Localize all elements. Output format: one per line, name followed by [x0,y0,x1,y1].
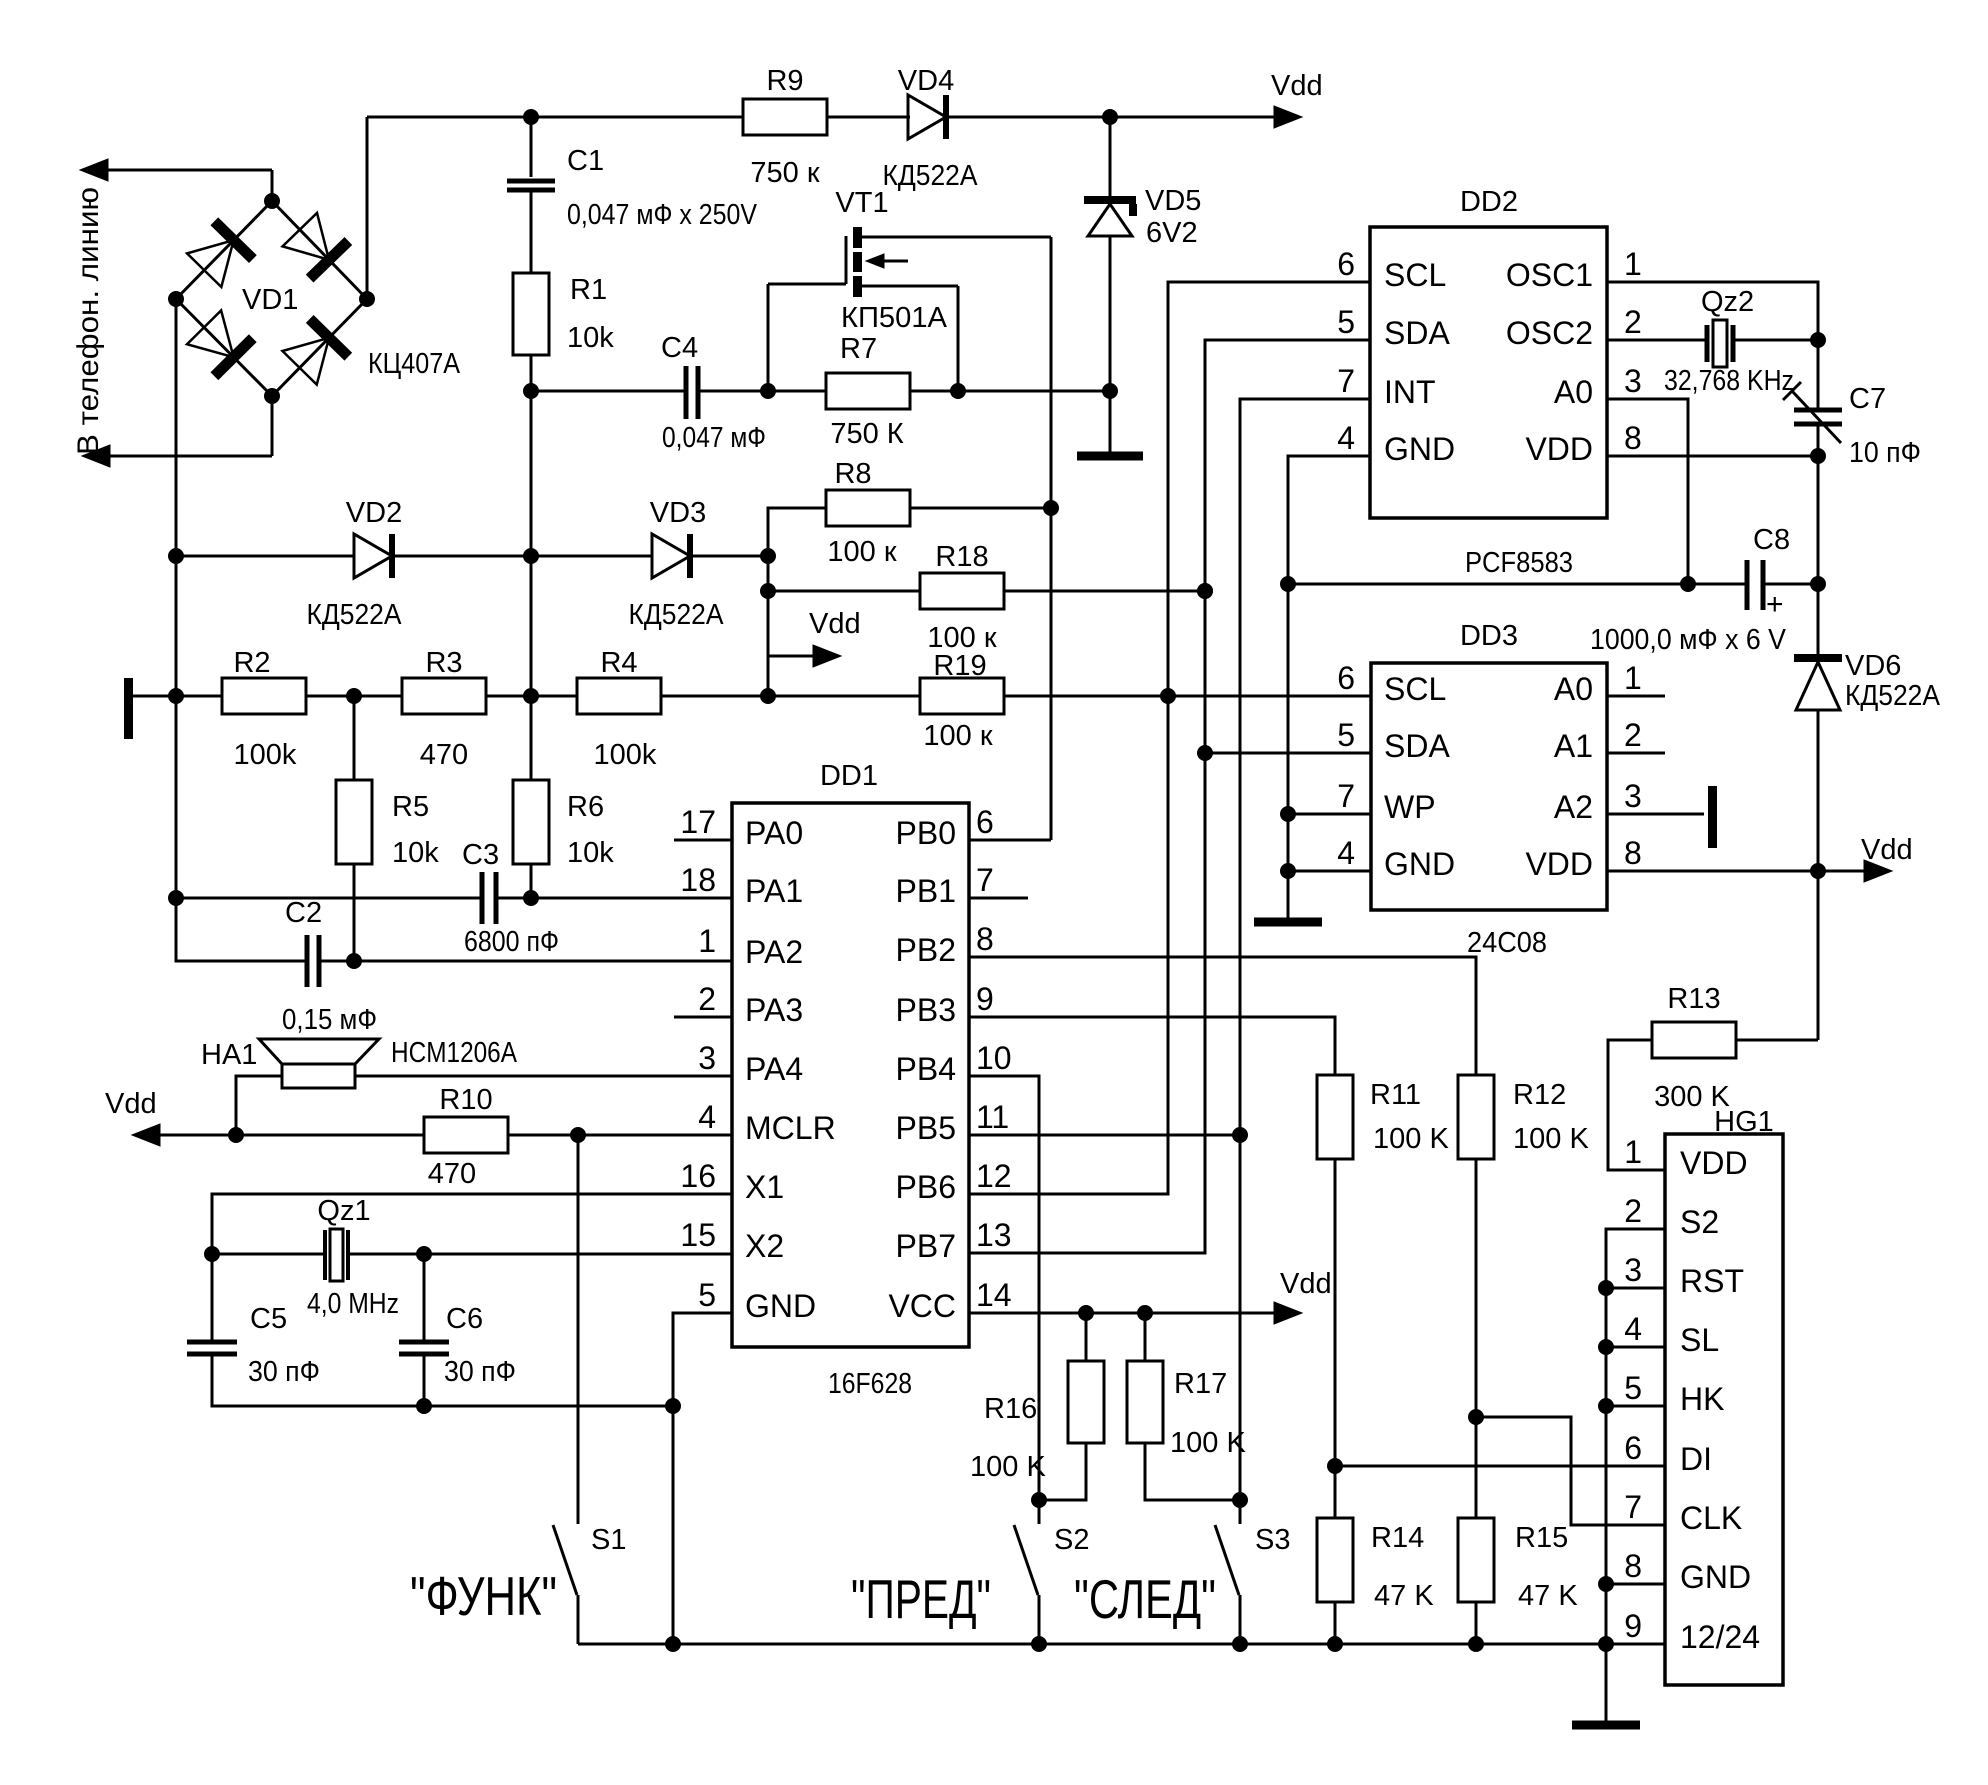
svg-text:6: 6 [1337,660,1355,696]
svg-text:PB1: PB1 [896,873,956,909]
wire PB4 down to S2 [969,1076,1039,1524]
stub DD3 A1 [1607,752,1665,755]
svg-text:18: 18 [680,862,716,898]
resistor R8 100к [826,490,910,526]
wire DD2 GND down to ground [1288,456,1370,918]
wire [1475,1602,1478,1644]
svg-text:SDA: SDA [1384,315,1450,351]
wire [1005,590,1205,593]
wire [160,1134,424,1137]
resistor R15 47 K [1458,1518,1494,1602]
svg-text:C5: C5 [250,1303,287,1335]
svg-text:7: 7 [1337,363,1355,399]
wire [133,695,222,698]
svg-text:R10: R10 [439,1084,492,1116]
wire gate down to R7 left node [767,284,770,391]
svg-text:DD2: DD2 [1460,186,1518,218]
wire [530,355,533,391]
svg-text:1: 1 [1624,1134,1642,1170]
diode bridge VD1 КЦ407А [168,193,375,404]
svg-text:30 пФ: 30 пФ [248,1356,320,1388]
svg-text:100 K: 100 K [970,1451,1046,1483]
svg-text:6: 6 [976,804,994,840]
svg-text:750 К: 750 К [830,418,903,450]
capacitor C6 30пФ [423,1254,426,1342]
svg-text:11: 11 [976,1099,1009,1135]
terminal arrow to phone line (bottom) [82,445,110,467]
Vdd arrow (left, MCLR pull-up) [132,1124,160,1146]
svg-text:HCM1206A: HCM1206A [391,1037,518,1069]
svg-text:47 K: 47 K [1518,1580,1578,1612]
svg-text:4: 4 [1337,835,1355,871]
wire DD1 GND down [673,1313,732,1644]
svg-text:2: 2 [1624,304,1642,340]
capacitor C8 1000,0мФ x 6V (polarized) [1745,560,1750,610]
svg-text:КД522А: КД522А [307,599,403,631]
svg-text:PB2: PB2 [896,932,956,968]
svg-text:R5: R5 [392,791,429,823]
svg-text:8: 8 [1624,1548,1642,1584]
svg-text:GND: GND [1680,1559,1751,1595]
wire [910,390,1110,393]
svg-text:VCC: VCC [888,1288,956,1324]
crystal Qz2 32,768 KHz [1713,320,1727,367]
svg-text:PA4: PA4 [745,1051,803,1087]
svg-text:100 K: 100 K [1373,1123,1449,1155]
wire [827,116,910,119]
wire [698,390,827,393]
svg-text:R16: R16 [984,1393,1037,1425]
svg-text:3: 3 [698,1040,716,1076]
capacitor C4 0,047мФ [684,366,689,419]
svg-text:C3: C3 [462,839,499,871]
resistor R9 750k [743,99,827,135]
wire DD3 WP from ground column [1288,813,1371,816]
resistor R13 300 K [1652,1022,1736,1058]
wire speaker left down [236,1076,282,1135]
svg-text:RST: RST [1680,1263,1744,1299]
resistor R12 100 K [1458,1075,1494,1159]
svg-text:VDD: VDD [1525,846,1593,882]
svg-text:PB4: PB4 [896,1051,956,1087]
svg-text:КП501А: КП501А [841,302,948,334]
resistor R6 10k [530,738,533,780]
svg-text:PB3: PB3 [896,992,956,1028]
svg-text:MCLR: MCLR [745,1110,836,1146]
svg-text:VD6: VD6 [1845,650,1901,682]
wire PB2 to R12 column [969,957,1476,1075]
wire R8 right to drain column [910,507,1051,510]
svg-text:8: 8 [1624,835,1642,871]
svg-text:Vdd: Vdd [105,1088,157,1120]
svg-text:PA2: PA2 [745,934,803,970]
svg-text:WP: WP [1384,789,1436,825]
diode VD6 КД522А [1817,584,1820,656]
svg-text:VD4: VD4 [898,65,954,97]
svg-text:R1: R1 [570,274,607,306]
svg-text:10k: 10k [567,322,614,354]
svg-text:3: 3 [1624,778,1642,814]
wire Vdd column down [1817,456,1820,584]
svg-text:X2: X2 [745,1228,784,1264]
svg-text:470: 470 [428,1158,476,1190]
svg-text:A2: A2 [1554,789,1593,825]
svg-text:DD3: DD3 [1460,620,1518,652]
resistor R2 100k [222,678,306,714]
wire [176,897,482,900]
diode VD4 КД522А [908,95,946,139]
svg-text:7: 7 [1624,1489,1642,1525]
svg-text:0,15 мФ: 0,15 мФ [282,1004,377,1036]
svg-text:17: 17 [680,804,716,840]
svg-text:R12: R12 [1513,1079,1566,1111]
svg-text:R18: R18 [935,541,988,573]
svg-text:13: 13 [976,1217,1012,1253]
capacitor C2 0,15мФ [305,935,310,987]
wire source down to R7 right node [957,286,960,391]
svg-text:R2: R2 [233,647,270,679]
wire HG1 stub [1606,1405,1665,1408]
IC DD1 16F628 [732,803,969,1347]
wire HG1 S2 chain down [1606,1229,1665,1721]
svg-text:100 к: 100 к [827,536,896,568]
svg-text:+: + [1766,588,1784,621]
svg-text:GND: GND [745,1288,816,1324]
net wire PCF8583 row [1288,583,1747,586]
svg-text:VD1: VD1 [242,284,298,316]
svg-text:VDD: VDD [1525,431,1593,467]
svg-text:"СЛЕД": "СЛЕД" [1074,1568,1216,1630]
svg-text:HG1: HG1 [1714,1106,1774,1138]
svg-text:0,047 мФ: 0,047 мФ [662,422,766,454]
svg-text:R14: R14 [1371,1522,1424,1554]
svg-text:C6: C6 [446,1303,483,1335]
IC DD3 24C08 [1371,663,1607,910]
svg-text:S2: S2 [1680,1204,1719,1240]
svg-text:5: 5 [698,1277,716,1313]
svg-text:10k: 10k [392,837,439,869]
svg-text:PA3: PA3 [745,992,803,1028]
wire PB0 up to drain column [969,839,1051,842]
resistor R1 10k [513,273,549,355]
trimmer capacitor C7 10пФ [1817,340,1820,408]
svg-text:6: 6 [1624,1430,1642,1466]
svg-text:VT1: VT1 [835,187,888,219]
svg-text:16: 16 [680,1158,716,1194]
svg-text:PB6: PB6 [896,1169,956,1205]
wire C5/C6 ground row [212,1354,673,1406]
svg-text:Vdd: Vdd [809,608,861,640]
IC DD2 PCF8583 [1370,227,1607,518]
svg-text:R9: R9 [766,65,803,97]
svg-text:100 K: 100 K [1170,1427,1246,1459]
wire Vdd junction down to VD5 [1109,117,1112,196]
svg-text:R6: R6 [567,791,604,823]
capacitor C5 30пФ [187,1340,237,1345]
terminal bar (A2) [1708,786,1717,848]
wire [690,555,768,558]
svg-text:24C08: 24C08 [1467,927,1547,959]
net wire DI to HG1 [1335,1465,1665,1468]
svg-text:10k: 10k [567,837,614,869]
svg-text:12/24: 12/24 [1680,1619,1760,1655]
resistor R17 100 K [1144,1313,1147,1360]
wire [661,695,920,698]
svg-text:PA0: PA0 [745,815,803,851]
svg-text:SCL: SCL [1384,257,1446,293]
svg-text:10: 10 [976,1040,1012,1076]
svg-text:Vdd: Vdd [1280,1268,1332,1300]
svg-text:10 пФ: 10 пФ [1849,437,1921,469]
svg-text:8: 8 [1624,420,1642,456]
resistor R3 470 [402,678,486,714]
resistor R10 470 [424,1117,508,1153]
wire VCC row with Vdd arrow [969,1312,1277,1315]
svg-text:КЦ407А: КЦ407А [368,348,461,380]
svg-text:R13: R13 [1667,983,1720,1015]
wire DD3 VDD to Vdd arrow [1607,870,1818,873]
svg-text:КД522А: КД522А [1845,680,1941,712]
svg-text:4,0 MHz: 4,0 MHz [307,1288,399,1320]
svg-text:GND: GND [1384,846,1455,882]
svg-text:14: 14 [976,1277,1012,1313]
svg-text:R8: R8 [834,458,871,490]
capacitor C1 0,047мФ x 250V [530,117,533,177]
svg-text:6800 пФ: 6800 пФ [464,926,559,958]
Vdd arrow (right) [1818,870,1867,873]
wire bridge left vertex down [175,299,178,898]
svg-text:OSC2: OSC2 [1506,315,1593,351]
wire [306,695,402,698]
svg-text:A0: A0 [1554,374,1593,410]
svg-text:100k: 100k [234,739,297,771]
svg-text:Vdd: Vdd [1861,834,1913,866]
svg-text:100 к: 100 к [923,720,992,752]
Vdd arrow (R8/R18 node) [768,655,816,658]
svg-text:DI: DI [1680,1441,1712,1477]
svg-text:HA1: HA1 [201,1039,257,1071]
wire HG1 stub [1606,1287,1665,1290]
wire R8 left leg [768,508,827,696]
svg-text:PCF8583: PCF8583 [1465,547,1573,579]
svg-text:7: 7 [976,862,994,898]
svg-text:INT: INT [1384,374,1436,410]
svg-text:PA1: PA1 [745,873,803,909]
ground (below VD5) [1077,452,1143,461]
svg-text:8: 8 [976,921,994,957]
svg-text:R17: R17 [1174,1368,1227,1400]
svg-text:R4: R4 [600,647,637,679]
wire DD2 INT down to PB5/S3 [1240,399,1370,1524]
svg-text:6: 6 [1337,246,1355,282]
wire [531,390,686,393]
wire speaker to PA4 [355,1075,732,1078]
svg-text:Vdd: Vdd [1271,70,1323,102]
wire OSC2 to crystal Qz2 [1607,339,1707,342]
svg-text:R11: R11 [1370,1079,1421,1111]
wire HG1 stub [1606,1583,1665,1586]
svg-text:C2: C2 [285,897,322,929]
svg-text:6V2: 6V2 [1146,217,1198,249]
ground (bottom right) [1605,1644,1608,1721]
wire PB7 up to SDA bus [969,340,1370,1253]
svg-text:R3: R3 [425,647,462,679]
svg-text:1000,0 мФ x 6 V: 1000,0 мФ x 6 V [1590,624,1787,656]
svg-text:DD1: DD1 [820,760,878,792]
svg-text:PB5: PB5 [896,1110,956,1146]
svg-text:470: 470 [420,739,468,771]
svg-text:1: 1 [1624,246,1642,282]
svg-text:4: 4 [1337,420,1355,456]
svg-text:30 пФ: 30 пФ [444,1356,516,1388]
svg-text:1: 1 [1624,660,1642,696]
svg-text:X1: X1 [745,1169,784,1205]
wire bridge right to top rail [366,117,369,299]
svg-text:C8: C8 [1753,524,1790,556]
wire [1334,1602,1337,1644]
wire R11 down to DI node [1334,1158,1337,1519]
wire DD2 A0 down to PCF net [1607,399,1688,584]
wire DD2 VDD to Vdd column [1607,455,1818,458]
Vdd arrow (top rail) [1274,106,1302,128]
zener diode VD5 6V2 [1084,196,1136,204]
svg-text:16F628: 16F628 [828,1368,912,1400]
wire to DD1 PA2 [319,960,732,963]
wire [392,555,652,558]
diode VD3 КД522А [652,534,690,578]
wire to DD1 MCLR [508,1134,732,1137]
wire [176,898,307,961]
wire C1/R1 column down through rows [530,391,533,738]
switch S2 ПРЕД [1014,1525,1038,1595]
wire [768,590,920,593]
svg-text:5: 5 [1337,717,1355,753]
svg-text:9: 9 [976,981,994,1017]
svg-text:100 K: 100 K [1513,1123,1589,1155]
svg-text:5: 5 [1624,1370,1642,1406]
svg-text:4: 4 [698,1099,716,1135]
svg-text:VD5: VD5 [1145,185,1201,217]
svg-text:3: 3 [1624,1252,1642,1288]
svg-text:7: 7 [1337,778,1355,814]
resistor R4 100k [577,678,661,714]
svg-text:S1: S1 [591,1524,626,1556]
wire DD3 A2 to open terminal [1607,813,1704,816]
transistor VT1 КП501А [768,227,1051,297]
resistor R16 100 K [1085,1313,1088,1360]
svg-text:SCL: SCL [1384,671,1446,707]
switch S3 СЛЕД [1215,1525,1239,1595]
svg-text:"ПРЕД": "ПРЕД" [851,1568,991,1630]
svg-text:GND: GND [1384,431,1455,467]
svg-text:5: 5 [1337,304,1355,340]
svg-text:В телефон. линию: В телефон. линию [72,187,105,455]
resistor R18 100к [920,573,1004,609]
wire PB5 to S3 column [969,1134,1240,1137]
svg-text:PB7: PB7 [896,1228,956,1264]
wire PB6 up to DD2 SCL [969,282,1370,1194]
svg-text:CLK: CLK [1680,1500,1742,1536]
wire PB3 to R11 column [969,1017,1335,1075]
resistor R5 10k [353,696,356,780]
wire drain down [1050,237,1053,840]
svg-text:"ФУНК": "ФУНК" [410,1565,557,1627]
wire R13 right to Vdd column [1735,1039,1818,1042]
svg-text:12: 12 [976,1158,1012,1194]
wire HG1 stub [1606,1346,1665,1349]
svg-text:0,047 мФ x 250V: 0,047 мФ x 250V [567,199,758,231]
wire OSC1 to crystal column [1607,282,1818,340]
stub PA0 [674,839,732,842]
svg-text:2: 2 [1624,1193,1642,1229]
diode VD2 КД522А [354,534,392,578]
electret mic terminal [124,678,133,739]
svg-text:C4: C4 [661,332,698,364]
bottom net wire [578,1643,1665,1646]
stub PA3 [674,1016,732,1019]
svg-text:КД522А: КД522А [629,599,725,631]
terminal arrow to phone line (top) [80,159,108,181]
svg-text:9: 9 [1624,1608,1642,1644]
svg-text:15: 15 [680,1217,716,1253]
stub DD3 A0 [1607,695,1665,698]
wire DD3 SDA from bus [1205,752,1371,755]
svg-text:750 к: 750 к [750,157,819,189]
svg-text:S3: S3 [1255,1524,1290,1556]
svg-text:100k: 100k [594,739,657,771]
svg-text:R15: R15 [1515,1522,1568,1554]
switch S1 ФУНК [577,1135,580,1524]
svg-text:VD2: VD2 [346,497,402,529]
wire to Vdd [946,116,1277,119]
stub PB1 [969,897,1028,900]
IC HG1 display [1665,1134,1783,1685]
capacitor C3 6800пФ [480,872,485,924]
svg-text:47 K: 47 K [1374,1580,1434,1612]
svg-text:A1: A1 [1554,728,1593,764]
svg-text:1: 1 [698,923,716,959]
wire X1 [212,1194,732,1342]
svg-text:HK: HK [1680,1381,1724,1417]
svg-text:3: 3 [1624,363,1642,399]
svg-text:R7: R7 [840,333,877,365]
svg-text:R19: R19 [933,650,986,682]
wire [486,695,577,698]
svg-text:A0: A0 [1554,671,1593,707]
wire [271,170,274,201]
svg-text:VDD: VDD [1680,1145,1748,1181]
resistor R11 100 K [1317,1075,1353,1159]
svg-text:PB0: PB0 [896,815,956,851]
wire R12 down to CLK node [1475,1158,1478,1519]
svg-text:C7: C7 [1849,383,1886,415]
sounder HA1 HCM1206A [282,1064,355,1088]
svg-text:C1: C1 [567,145,604,177]
wire to DD3 SCL [1005,695,1371,698]
wire [271,396,274,456]
wire DD3 GND from ground column [1288,870,1371,873]
svg-text:SL: SL [1680,1322,1719,1358]
ground (DD2/DD3) [1254,918,1322,927]
wire R13 left to HG1 VDD [1608,1040,1665,1170]
svg-text:КД522А: КД522А [883,160,979,192]
svg-text:SDA: SDA [1384,728,1450,764]
svg-text:Qz2: Qz2 [1701,286,1754,318]
svg-text:2: 2 [698,981,716,1017]
svg-text:VD3: VD3 [650,497,706,529]
svg-text:32,768 KHz: 32,768 KHz [1664,365,1794,397]
resistor R14 47 K [1317,1518,1353,1602]
